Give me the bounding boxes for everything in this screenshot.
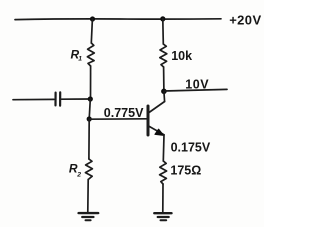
resistor R2: [85, 159, 92, 180]
label +20V supply: [229, 12, 261, 27]
wire RE to ground: [162, 184, 164, 212]
wire R2 to ground: [87, 180, 89, 212]
svg-text:1: 1: [78, 55, 82, 62]
wire left branch upper segment: [91, 19, 92, 43]
svg-text:+20V: +20V: [229, 12, 261, 27]
wire base lead: [89, 118, 146, 120]
wire between R1 and capacitor node: [90, 66, 92, 99]
label 10k: [171, 49, 192, 63]
wire between capacitor node and base node: [89, 99, 90, 119]
wire output 10V lead: [164, 89, 227, 91]
wire right branch rail to 10k: [162, 19, 165, 44]
wire collector vertical: [163, 91, 166, 101]
label 0.775V base voltage: [104, 106, 144, 120]
ground left: [79, 213, 99, 220]
wire 10k to collector node: [163, 67, 165, 91]
label R2: [69, 161, 81, 178]
svg-text:175Ω: 175Ω: [170, 163, 201, 177]
label R1: [71, 47, 83, 62]
label 0.175V emitter voltage: [171, 140, 211, 154]
node base junction: [87, 116, 92, 121]
svg-text:2: 2: [76, 171, 81, 178]
resistor R1: [87, 43, 94, 66]
svg-text:10k: 10k: [171, 49, 192, 63]
wire emitter vertical: [162, 135, 165, 161]
wire between base node and R2: [88, 119, 90, 159]
svg-text:10V: 10V: [185, 78, 209, 92]
ground right: [154, 213, 171, 220]
node top-left junction: [90, 16, 95, 21]
capacitor C1 input: [13, 92, 90, 105]
wire top supply rail: [15, 18, 221, 21]
label 175 ohm: [170, 163, 201, 177]
node collector output junction: [161, 89, 167, 95]
resistor RC 10k: [160, 44, 167, 67]
resistor RE 175 ohm: [160, 161, 167, 184]
transistor Q1: [148, 102, 165, 136]
node capacitor junction: [88, 96, 93, 101]
svg-text:0.175V: 0.175V: [171, 140, 211, 154]
node top-right junction: [160, 16, 165, 21]
svg-text:0.775V: 0.775V: [104, 106, 144, 120]
label 10V output: [185, 78, 209, 92]
